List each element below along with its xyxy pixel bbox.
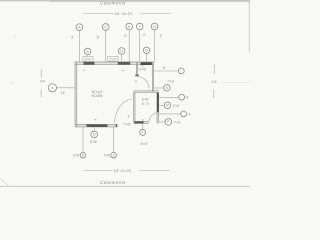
- svg-text:3'×4': 3'×4': [140, 142, 147, 146]
- scan edge right band: [249, 0, 250, 52]
- scan edge bottom band: [0, 186, 250, 187]
- callout B + stub: [87, 55, 89, 57]
- bottom callout 1 + stub: [93, 127, 95, 131]
- bottom callout 4 + stub: [142, 124, 144, 130]
- svg-text:14': 14': [212, 80, 217, 84]
- door jamb tick inner wall: [135, 75, 138, 77]
- right callout 1: [178, 68, 184, 74]
- scan edge top band: [0, 0, 250, 1]
- dimension line top: [83, 13, 171, 15]
- svg-text:4': 4': [188, 112, 191, 116]
- right leader 5: [159, 113, 181, 115]
- solid wall fill top segment 2: [118, 62, 130, 65]
- solid wall fill top segment 1: [84, 62, 95, 65]
- window check v4 (bottom): [94, 119, 96, 121]
- svg-text:2': 2': [143, 33, 146, 37]
- wall left lower closet: [133, 92, 135, 122]
- right leader 6: [159, 121, 165, 123]
- svg-text:Casements: Casements: [100, 1, 126, 6]
- callout H: [151, 23, 158, 30]
- svg-text:3': 3': [124, 34, 127, 38]
- svg-text:S: S: [113, 154, 115, 158]
- callout C: [102, 24, 109, 31]
- callout left + leader: [57, 87, 75, 89]
- callout E: [126, 23, 133, 30]
- svg-text:2'×2': 2'×2': [109, 58, 116, 62]
- svg-text:16'-6×22: 16'-6×22: [115, 11, 134, 16]
- wall top (double line): [75, 61, 154, 63]
- right leader 1: [154, 70, 179, 72]
- walls: [75, 62, 159, 127]
- svg-text:16'-6×22: 16'-6×22: [113, 168, 132, 173]
- wall bottom room (double line): [75, 124, 117, 126]
- svg-text:ROOM: ROOM: [92, 94, 103, 98]
- svg-text:7'×5': 7'×5': [124, 122, 131, 126]
- faint paper fold line right: [216, 81, 250, 84]
- right callout 4: [164, 102, 171, 109]
- solid wall fill lower closet right: [157, 93, 159, 112]
- right callout 6: [165, 119, 172, 126]
- bottom callout 3: [111, 152, 117, 158]
- svg-text:F: F: [139, 25, 141, 29]
- svg-text:P: P: [167, 120, 169, 124]
- svg-text:Casements: Casements: [100, 180, 126, 185]
- svg-text:2': 2': [160, 34, 163, 38]
- door arc lower closet: [149, 112, 159, 122]
- paper speckle: [12, 83, 13, 84]
- leader F: [139, 30, 141, 62]
- bottom leader 2: [82, 127, 84, 152]
- callout F: [136, 23, 143, 30]
- wall mid horizontal: [134, 90, 159, 92]
- window check v1: [83, 69, 85, 71]
- solid wall fill bottom segment: [87, 124, 108, 127]
- svg-text:6': 6': [186, 96, 189, 100]
- svg-text:M: M: [166, 104, 169, 108]
- callout A: [76, 24, 83, 31]
- right leader 4: [159, 104, 164, 106]
- door arc upper closet: [137, 77, 149, 89]
- svg-text:3': 3': [71, 35, 74, 39]
- svg-text:6'×6': 6'×6': [142, 97, 149, 101]
- svg-text:2'×2': 2'×2': [173, 104, 180, 108]
- right callout 3: [179, 94, 185, 100]
- svg-text:14': 14': [40, 80, 45, 84]
- bottom leader 3: [113, 127, 115, 152]
- right leader 2: [154, 87, 164, 89]
- wall infill shading: [75, 62, 159, 127]
- right callout 2: [164, 85, 170, 91]
- svg-text:7'×6': 7'×6': [103, 154, 110, 158]
- dimension line bottom: [84, 169, 170, 171]
- wall inner vertical (room / upper closet): [135, 62, 137, 75]
- wall left (double line): [74, 62, 76, 127]
- paper speckle 2: [14, 36, 16, 37]
- svg-text:2'×2': 2'×2': [85, 58, 92, 62]
- dimension 14' left: [40, 69, 42, 97]
- leader E: [128, 30, 130, 62]
- svg-text:7'×3': 7'×3': [174, 121, 181, 125]
- svg-text:6': 6': [97, 36, 100, 40]
- wall right upper closet: [151, 62, 153, 92]
- door jamb tick bottom wall end: [116, 124, 118, 127]
- right callout 5: [181, 111, 187, 117]
- paper background: [0, 0, 250, 187]
- callout G + stub: [146, 54, 148, 63]
- corner smudge bottom-left: [0, 179, 9, 187]
- svg-text:2'×6': 2'×6': [73, 154, 80, 158]
- svg-text:3: 3: [135, 80, 137, 84]
- dimension 14' right: [213, 64, 215, 98]
- window check v5 (closet bottom): [142, 119, 144, 121]
- door arc room bottom: [115, 99, 133, 123]
- window tag box 2: [108, 56, 118, 61]
- wall bottom lower closet: [134, 120, 149, 122]
- svg-text:6': 6': [163, 66, 166, 70]
- svg-text:3: 3: [128, 115, 130, 119]
- svg-text:6' / V: 6' / V: [142, 102, 150, 106]
- leader H: [154, 30, 156, 62]
- leader A: [78, 31, 80, 62]
- leader C: [105, 30, 107, 62]
- svg-text:7'×3': 7'×3': [167, 80, 174, 84]
- window check v3 (closet): [142, 65, 144, 67]
- solid wall fill lower closet bottom: [134, 121, 143, 123]
- right leader 3: [159, 96, 179, 98]
- solid wall fill top segment 3 (closet header): [141, 62, 152, 65]
- svg-text:6'×6': 6'×6': [139, 68, 146, 72]
- callout D + stub: [121, 54, 123, 62]
- svg-text:G: G: [145, 49, 148, 53]
- wall right lower closet: [156, 92, 158, 123]
- svg-text:T: T: [142, 131, 144, 135]
- window tag box 1: [83, 56, 93, 61]
- svg-text:6'×6': 6'×6': [90, 140, 97, 144]
- svg-text:14': 14': [61, 91, 66, 95]
- window check v2: [122, 70, 124, 72]
- bottom callout 2: [80, 152, 86, 158]
